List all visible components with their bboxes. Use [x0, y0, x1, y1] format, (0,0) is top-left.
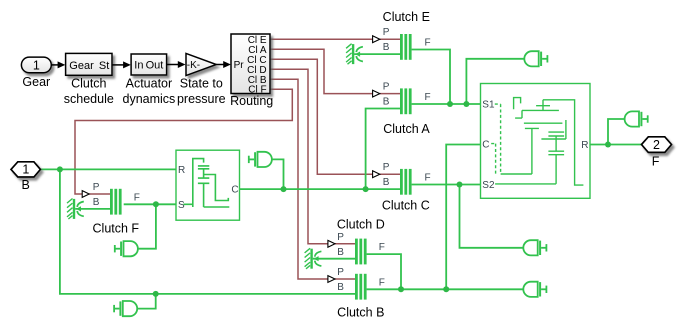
svg-text:2: 2: [653, 138, 660, 152]
inport 1 Gear: [21, 57, 51, 73]
svg-text:Clutch D: Clutch D: [337, 218, 385, 232]
node Clutch F F junction: [153, 201, 159, 207]
svg-text:Out: Out: [146, 60, 164, 72]
svg-text:P: P: [383, 82, 390, 93]
svg-text:1: 1: [33, 58, 40, 72]
svg-text:Clutch C: Clutch C: [382, 199, 430, 213]
inport B (connection port 1): [11, 162, 40, 177]
wire S2 net down to right connection port: [460, 185, 524, 248]
wire Cl F (Routing to Clutch F P): [75, 89, 292, 194]
svg-text:State to: State to: [180, 77, 223, 91]
svg-text:B: B: [22, 178, 30, 192]
block Clutch schedule: [66, 53, 112, 75]
block Routing: [231, 34, 270, 94]
pin arrow Clutch B P: [328, 276, 335, 283]
wire output net up to Ravigneaux C port: [446, 145, 480, 290]
connection port plug bottom left (B net): [114, 301, 137, 316]
connection port plug right of R net: [625, 111, 648, 126]
node B net bottom junction: [153, 291, 159, 297]
svg-text:S1: S1: [482, 100, 495, 111]
clutch A icon: [400, 88, 412, 114]
pin arrow Clutch F P: [82, 191, 89, 198]
wire input B to junction and to planetary R port: [40, 168, 176, 170]
svg-text:F: F: [134, 192, 140, 203]
svg-text:F: F: [425, 38, 431, 49]
clutch B icon: [355, 274, 367, 300]
wire bottom-left connection port to B net: [137, 294, 155, 309]
clutch E icon: [400, 34, 412, 60]
svg-text:P: P: [93, 182, 100, 193]
pin arrow Clutch A P: [373, 90, 380, 97]
Ravigneaux gear inner icon: [491, 98, 583, 186]
gain State to pressure: [186, 53, 216, 75]
connection port plug near planetary (C net): [249, 152, 272, 167]
svg-text:Clutch E: Clutch E: [383, 10, 430, 24]
svg-text:Clutch B: Clutch B: [337, 306, 384, 320]
svg-text:F: F: [379, 277, 385, 288]
svg-text:B: B: [337, 282, 344, 293]
svg-text:P: P: [383, 27, 390, 38]
ground housing for Clutch F: [67, 199, 84, 220]
subsystem Ravigneaux gear (S1 C S2 R): [481, 84, 591, 199]
wire Clutch D F down to output net: [367, 254, 401, 289]
svg-text:B: B: [383, 97, 390, 108]
svg-text:C: C: [482, 139, 489, 150]
svg-text:St: St: [99, 60, 109, 72]
wire upper connection port down to C net: [272, 159, 283, 189]
block Actuator dynamics: [131, 54, 167, 75]
connection port plug top right (S1 net): [524, 51, 547, 66]
svg-text:Gear: Gear: [22, 75, 50, 89]
svg-text:S2: S2: [482, 180, 495, 191]
ground housing for Clutch E: [346, 44, 363, 64]
svg-text:pressure: pressure: [177, 92, 226, 106]
svg-text:Clutch: Clutch: [71, 77, 106, 91]
wire Cl C (Routing to Clutch C P): [270, 59, 373, 174]
wire Gear to Clutch schedule: [51, 64, 58, 66]
wire P stub into Clutch C: [380, 173, 400, 175]
svg-text:B: B: [93, 197, 100, 208]
svg-text:P: P: [383, 162, 390, 173]
wire Clutch F B from housing ground: [75, 208, 110, 210]
wire Ravigneaux R port to outport F: [590, 144, 642, 146]
svg-text:Actuator: Actuator: [126, 77, 173, 91]
svg-text:-K-: -K-: [187, 60, 200, 71]
svg-text:F: F: [379, 242, 385, 253]
svg-text:R: R: [178, 165, 185, 176]
wire P stub into Clutch F: [89, 193, 110, 195]
wire Clutch A B port to C net: [366, 109, 400, 190]
wire Clutch D B from housing ground: [313, 258, 355, 260]
wire Clutch F F output to planetary S port: [124, 203, 176, 205]
node output net junction 2: [443, 286, 449, 292]
svg-text:B: B: [337, 247, 344, 258]
svg-text:dynamics: dynamics: [123, 92, 176, 106]
node output net junction 1: [398, 286, 404, 292]
subsystem planetary gear (R S C): [176, 150, 240, 220]
svg-text:S: S: [178, 200, 185, 211]
wire Clutch schedule to Actuator dynamics: [112, 64, 124, 66]
wire gain to Routing Pr: [216, 64, 224, 66]
connection port plug right (S2 net): [523, 240, 546, 255]
svg-text:B: B: [383, 177, 390, 188]
wire Cl D (Routing to Clutch D P): [270, 69, 328, 244]
node R output junction: [605, 142, 611, 148]
ground housing for Clutch D: [305, 248, 322, 268]
wire Cl E (Routing to Clutch E P): [270, 38, 373, 40]
connection port plug bottom right (output net): [523, 282, 546, 297]
wire planetary C port to Clutch C B port: [240, 188, 401, 190]
svg-text:schedule: schedule: [64, 92, 114, 106]
wire Cl B (Routing to Clutch B P): [270, 79, 328, 279]
svg-text:Pr: Pr: [234, 60, 245, 71]
node C net port junction: [281, 186, 287, 192]
clutch D icon: [355, 239, 367, 265]
svg-text:P: P: [337, 232, 344, 243]
wire Actuator dynamics to gain: [167, 64, 179, 66]
node S2 net junction: [457, 182, 463, 188]
svg-text:1: 1: [22, 163, 29, 177]
clutch F icon: [110, 189, 122, 215]
wire left connection port to Clutch F F net: [138, 204, 156, 248]
node B input junction: [57, 166, 63, 172]
outport F (connection port 2): [642, 137, 672, 153]
wire P stub into Clutch B: [335, 278, 355, 280]
wire Clutch B F to bottom-right connection port: [367, 288, 523, 290]
pin arrow Clutch D P: [328, 240, 335, 247]
svg-text:F: F: [425, 173, 431, 184]
svg-text:In: In: [134, 60, 143, 72]
svg-text:R: R: [581, 140, 588, 151]
node S1 net junction 1: [447, 101, 453, 107]
wire Clutch E B from housing ground: [354, 53, 400, 55]
svg-text:Gear: Gear: [69, 60, 94, 72]
svg-text:F: F: [652, 154, 660, 168]
wire P stub into Clutch D: [335, 243, 355, 245]
wire top-right connection port to S1 net: [466, 59, 524, 104]
node C net Clutch A junction: [363, 186, 369, 192]
svg-text:B: B: [383, 42, 390, 53]
wire Clutch E F down to S1 net: [412, 50, 450, 105]
svg-text:Clutch F: Clutch F: [93, 221, 140, 235]
wire Cl A (Routing to Clutch A P): [270, 49, 373, 93]
planetary gear inner icon: [183, 159, 229, 207]
pin arrow Clutch C P: [373, 171, 380, 178]
wire Clutch C F to Ravigneaux S2 port: [412, 184, 481, 186]
wire P stub into Clutch A: [380, 93, 400, 95]
svg-text:C: C: [231, 185, 238, 196]
node S1 net junction 2: [463, 101, 469, 107]
svg-text:P: P: [337, 267, 344, 278]
wire B net down to Clutch B B port: [60, 169, 355, 294]
clutch C icon: [400, 169, 412, 195]
wire R net up to right connection port: [608, 119, 624, 145]
svg-text:Clutch A: Clutch A: [383, 122, 430, 136]
pin arrow Clutch E P: [373, 36, 380, 43]
svg-text:Routing: Routing: [230, 94, 273, 108]
svg-text:F: F: [425, 92, 431, 103]
wire Clutch A F to Ravigneaux S1 port: [412, 103, 481, 105]
connection port plug below Clutch F: [115, 241, 138, 256]
wire P stub into Clutch E: [380, 38, 400, 40]
